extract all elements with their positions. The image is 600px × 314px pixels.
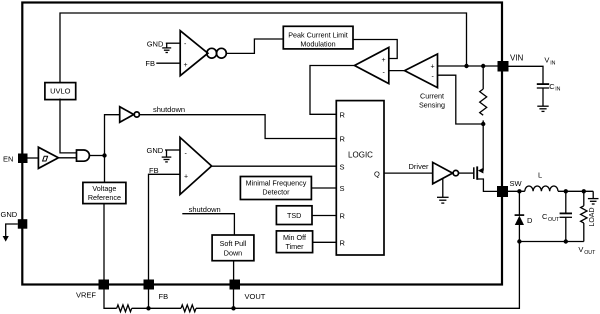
node COUT-bottom junction <box>564 239 568 243</box>
pin SW <box>497 179 523 197</box>
svg-text:D: D <box>527 216 533 225</box>
resistor R1 divider <box>117 305 132 312</box>
wire junction down to Voltage Reference <box>104 156 106 183</box>
EN hysteresis buffer <box>38 147 58 168</box>
svg-text:Timer: Timer <box>285 242 304 251</box>
shutdown inverter <box>120 107 140 123</box>
wire VOUT pin drop <box>233 290 235 309</box>
gm output circles of comp1 <box>207 48 227 58</box>
wire VOUT feedback loop <box>196 242 519 309</box>
ground symbol comp2 <box>162 150 172 162</box>
wire buffer to AND gate <box>58 157 76 159</box>
svg-text:R: R <box>340 239 346 248</box>
wire UVLO to AND gate <box>60 99 77 153</box>
svg-text:-: - <box>383 70 386 77</box>
pin VIN <box>498 54 524 72</box>
svg-text:Driver: Driver <box>409 162 430 171</box>
ground symbol output <box>588 191 599 204</box>
svg-text:-: - <box>185 150 188 157</box>
svg-text:V: V <box>544 56 549 65</box>
svg-text:FB: FB <box>145 59 155 68</box>
wire driver to MOSFET gate <box>459 172 474 174</box>
node LOAD-top junction <box>582 189 586 193</box>
svg-text:+: + <box>184 173 188 180</box>
pin FB <box>144 280 169 302</box>
svg-text:Reference: Reference <box>88 193 121 202</box>
svg-text:Sensing: Sensing <box>419 100 445 109</box>
ground arrow at GND pin <box>3 224 18 242</box>
wire AND output to junction <box>90 155 105 157</box>
svg-text:OUT: OUT <box>584 250 596 256</box>
wire EN pin to buffer <box>28 157 39 159</box>
svg-text:FB: FB <box>149 166 159 175</box>
transistor Q1 PMOS switch <box>474 124 497 191</box>
label VIN external <box>544 56 555 67</box>
resistor R-sense <box>480 66 487 124</box>
node VIN-toprail junction <box>464 64 468 68</box>
svg-text:OUT: OUT <box>548 217 560 223</box>
wire shutdown stub to Soft Pull Down <box>182 214 234 235</box>
svg-text:Detector: Detector <box>262 188 290 197</box>
wire comp1 output to Peak Current Limit Modulation <box>226 39 283 53</box>
svg-text:EN: EN <box>3 154 13 163</box>
Minimal Frequency Detector block <box>240 177 311 200</box>
AND gate U-en <box>77 150 90 161</box>
label Current Sensing <box>419 92 445 110</box>
Peak Current Limit Modulation block <box>283 26 353 49</box>
wire Q output to driver <box>384 172 433 174</box>
wire VIN pin to CIN <box>509 66 544 83</box>
svg-text:shutdown: shutdown <box>153 105 185 114</box>
wire Soft Pull Down to VOUT pin <box>233 261 235 280</box>
svg-text:V: V <box>578 245 583 254</box>
label CIN <box>549 82 560 93</box>
wire output bottom rail <box>519 241 583 243</box>
Soft Pull Down block <box>212 235 254 261</box>
wire VIN rail to current sense plus <box>438 65 498 67</box>
ground symbol driver <box>437 178 449 203</box>
pin GND <box>1 210 28 229</box>
node AND-output junction <box>102 153 106 157</box>
svg-text:UVLO: UVLO <box>50 87 71 96</box>
comparator U-cmp2 (error amp S input) <box>180 137 212 194</box>
svg-text:R: R <box>340 111 346 120</box>
svg-text:Minimal Frequency: Minimal Frequency <box>246 179 307 188</box>
IC boundary box <box>22 3 502 285</box>
svg-text:+: + <box>431 64 435 71</box>
resistor R2 divider <box>181 305 196 312</box>
capacitor COUT <box>560 191 572 241</box>
svg-text:SW: SW <box>510 179 523 188</box>
svg-text:Peak Current Limit: Peak Current Limit <box>288 31 348 40</box>
svg-text:Down: Down <box>224 248 242 257</box>
svg-text:L: L <box>538 171 542 180</box>
svg-text:Min Off: Min Off <box>283 233 306 242</box>
LOGIC block <box>336 101 384 255</box>
wire PCLM output to comparator U-cmp3 plus input <box>353 40 397 59</box>
node VOUT divider junction <box>231 306 235 310</box>
wire MFD output to LOGIC S2 <box>311 187 336 189</box>
wire top rail from UVLO to VIN <box>60 13 467 83</box>
svg-text:+: + <box>184 62 188 69</box>
node FB divider junction <box>146 306 150 310</box>
svg-text:FB: FB <box>159 292 169 301</box>
pin VREF <box>76 280 109 300</box>
wire GND stub to comp2 <box>165 149 180 151</box>
wire FB stub to comp1 <box>156 62 180 64</box>
wire VREF pin to divider <box>104 290 117 309</box>
node diode-bottom junction <box>517 239 521 243</box>
wire current sense minus loop <box>438 75 484 124</box>
svg-text:R: R <box>340 135 346 144</box>
svg-text:GND: GND <box>147 39 164 48</box>
svg-text:Q: Q <box>374 169 380 178</box>
Voltage Reference block <box>83 182 126 203</box>
wire comp2 output to LOGIC S1 <box>212 165 337 167</box>
wire comp3 minus to current sense output <box>389 70 405 72</box>
svg-text:TSD: TSD <box>287 211 301 220</box>
wire FB pin drop <box>148 290 150 309</box>
svg-text:LOGIC: LOGIC <box>348 150 373 159</box>
label VOUT external <box>578 245 596 256</box>
Min Off Timer block <box>276 231 312 253</box>
resistor LOAD <box>581 191 596 241</box>
wire inductor to load <box>558 190 593 192</box>
node COUT-top junction <box>564 189 568 193</box>
ground symbol comp1 <box>162 43 171 52</box>
svg-text:IN: IN <box>550 60 555 66</box>
svg-text:S: S <box>340 162 345 171</box>
svg-text:Current: Current <box>420 92 444 101</box>
pin VOUT <box>230 280 266 302</box>
svg-text:VIN: VIN <box>510 54 524 63</box>
svg-text:Modulation: Modulation <box>300 39 335 48</box>
svg-text:-: - <box>432 74 435 81</box>
UVLO block <box>45 83 76 100</box>
svg-text:LOAD: LOAD <box>589 207 596 226</box>
label COUT <box>542 212 560 223</box>
svg-text:Soft Pull: Soft Pull <box>220 239 247 248</box>
wire FB net comp2 to FB pin <box>149 174 181 280</box>
svg-text:Voltage: Voltage <box>92 184 116 193</box>
svg-text:+: + <box>382 57 386 64</box>
wire Voltage Reference to VREF pin <box>103 204 105 280</box>
pin EN <box>3 154 28 164</box>
node sense-resistor-bottom junction <box>481 122 485 126</box>
wire R1 to FB node <box>132 307 181 309</box>
comparator U-cmp1 (error amp top) <box>180 31 208 76</box>
svg-text:R: R <box>340 212 346 221</box>
diode D <box>515 191 533 241</box>
TSD block <box>276 206 312 225</box>
inductor L <box>525 171 558 192</box>
ground symbol CIN <box>537 106 548 111</box>
svg-text:IN: IN <box>555 87 560 93</box>
svg-text:GND: GND <box>1 210 18 219</box>
svg-text:VREF: VREF <box>76 291 96 300</box>
svg-text:-: - <box>184 41 187 48</box>
svg-text:VOUT: VOUT <box>245 292 266 301</box>
wire TSD output to LOGIC R3 <box>312 215 336 217</box>
wire junction to shutdown inverter <box>105 115 120 156</box>
svg-text:S: S <box>340 184 345 193</box>
wire SW pin to inductor <box>508 190 525 192</box>
node SW-diode junction <box>517 189 521 193</box>
node VIN-resistor junction <box>481 64 485 68</box>
svg-text:shutdown: shutdown <box>189 205 221 214</box>
wire GND stub to comp1 <box>166 42 180 44</box>
driver inverter U-drv <box>433 162 459 183</box>
wire Min Off Timer output to LOGIC R4 <box>313 241 337 243</box>
svg-text:GND: GND <box>147 146 164 155</box>
wire shutdown inverter to LOGIC R2 <box>140 115 337 139</box>
comparator U-cmp3 peak current <box>355 47 389 83</box>
wire comp3 output to LOGIC R1 <box>310 66 355 115</box>
comparator U-cs current sensing <box>405 54 438 88</box>
capacitor CIN <box>537 84 549 106</box>
